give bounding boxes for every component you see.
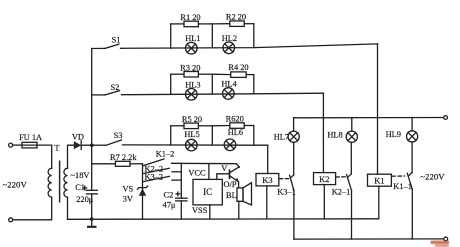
wire speaker to ground rail — [238, 201, 240, 219]
svg-text:R5 20: R5 20 — [182, 115, 202, 124]
wire mid to R6 — [212, 125, 230, 127]
svg-text:HL3: HL3 — [185, 80, 200, 89]
label ~220V (left mains) — [3, 179, 28, 189]
svg-text:C1: C1 — [75, 183, 85, 192]
wire K3-1 to bottom rail — [293, 191, 295, 240]
svg-text:HL5: HL5 — [184, 130, 199, 139]
relay coil K3 — [256, 174, 279, 186]
svg-text:K1–2: K1–2 — [156, 150, 175, 159]
svg-text:K3–2: K3–2 — [144, 173, 163, 182]
wire row 3 — [123, 144, 268, 146]
wire K1-1 to bottom rail — [411, 189, 413, 239]
svg-text:R1 20: R1 20 — [180, 13, 200, 22]
svg-text:IC: IC — [203, 187, 212, 197]
label ~18V — [71, 171, 90, 180]
switch S2 — [92, 83, 120, 95]
svg-text:HL2: HL2 — [222, 34, 237, 43]
relay coil K2 — [314, 173, 336, 185]
wire 220V lamp rail — [294, 117, 444, 119]
node ground junction — [90, 217, 94, 221]
relay contact K2-2 — [143, 164, 181, 173]
wire R2 right branch — [244, 24, 254, 48]
wire row1 to relay K1 coil — [377, 44, 379, 174]
resistor R7 2.2k — [110, 153, 137, 166]
svg-text:K1: K1 — [374, 176, 384, 186]
svg-text:HL1: HL1 — [185, 34, 200, 43]
lamp HL3 — [185, 80, 200, 100]
wire row3 parallel-resistor left branch — [171, 126, 184, 145]
dashed link K1 to contact K1-1 — [392, 175, 405, 177]
transformer T primary winding — [48, 168, 52, 197]
wire O/P output to transistor base — [217, 174, 237, 189]
wire row1 parallel-resistor left branch — [171, 24, 184, 48]
speaker BL — [226, 183, 252, 205]
watermark red text — [431, 241, 450, 247]
svg-text:S3: S3 — [114, 131, 123, 140]
svg-text:VSS: VSS — [192, 206, 208, 215]
svg-text:K3–1: K3–1 — [277, 187, 296, 196]
wire contact/zener vertical — [142, 164, 144, 219]
wire row2 parallel-resistor left branch — [171, 74, 184, 94]
lamp HL7 — [274, 131, 300, 142]
wire HL9 to contact K1-1 — [411, 142, 413, 173]
svg-text:BL: BL — [226, 191, 237, 200]
svg-text:HL6: HL6 — [228, 128, 243, 137]
zener diode VS 3V — [123, 185, 148, 204]
relay coil K1 — [368, 174, 392, 186]
svg-text:R2 20: R2 20 — [226, 13, 246, 22]
svg-text:~18V: ~18V — [71, 171, 90, 180]
transformer T secondary winding — [54, 143, 67, 197]
wire K2 coil to ground rail — [323, 185, 325, 219]
wire secondary top to diode — [68, 145, 74, 168]
wire R4 right branch — [246, 75, 254, 94]
svg-text:220μ: 220μ — [76, 195, 94, 204]
lamp HL6 — [224, 128, 243, 150]
relay contact K3-1 — [277, 175, 296, 196]
lamp HL9 — [386, 130, 418, 142]
svg-text:C2: C2 — [164, 190, 174, 199]
wire K2-1 to bottom rail — [351, 190, 353, 239]
wire VCC pin — [188, 164, 209, 180]
wire HL8 to contact K2-1 — [350, 142, 352, 174]
diode VD — [72, 133, 92, 150]
wire row3 to relay K3 coil — [267, 145, 269, 173]
svg-text:K1–1: K1–1 — [393, 182, 412, 191]
svg-text:HL9: HL9 — [386, 130, 401, 139]
svg-text:K3: K3 — [262, 175, 272, 185]
wire HL8 top — [351, 118, 353, 132]
wire R7 to contact bus — [130, 163, 143, 165]
svg-text:VD: VD — [72, 133, 84, 142]
terminal bottom rail right — [444, 237, 448, 241]
svg-text:K2: K2 — [319, 174, 329, 184]
svg-text:S2: S2 — [110, 83, 119, 92]
label ~220V (right mains) — [420, 171, 445, 181]
svg-text:R7 2.2k: R7 2.2k — [110, 153, 137, 162]
resistor R5 20 — [182, 115, 202, 128]
wire fuse to transformer primary — [37, 145, 52, 168]
relay contact K2-1 — [332, 174, 352, 197]
wire R5 to mid junction row3 — [198, 126, 212, 145]
svg-text:R620: R620 — [226, 115, 244, 124]
resistor R1 20 — [180, 13, 200, 27]
terminal (mains input top-left) — [9, 143, 22, 147]
svg-text:~220V: ~220V — [420, 171, 445, 181]
wire contacts right bus to C2 — [180, 163, 182, 198]
ground symbol — [87, 219, 97, 227]
wire left supply bus (vertical) — [91, 49, 93, 191]
transformer core — [59, 161, 61, 203]
svg-text:O/P: O/P — [224, 180, 237, 189]
wire R3 to mid junction row2 — [198, 74, 212, 94]
resistor R6 20 — [226, 115, 245, 129]
svg-text:~220V: ~220V — [3, 179, 28, 189]
transistor V — [221, 164, 239, 182]
svg-text:K2–1: K2–1 — [332, 187, 351, 196]
wire R7 feed from bus — [92, 163, 116, 165]
resistor R3 20 — [180, 63, 200, 77]
wire HL7 to contact K3-1 — [293, 142, 295, 175]
wire K1 coil to ground rail end — [378, 186, 380, 219]
node rectifier output junction — [90, 143, 94, 147]
wire secondary bottom to ground rail — [67, 197, 69, 219]
switch S3 — [92, 131, 123, 145]
dashed link K3 to contact K3-1 — [279, 178, 289, 180]
svg-text:FU 1A: FU 1A — [19, 133, 42, 142]
svg-text:R3 20: R3 20 — [180, 63, 200, 72]
terminal 220V rail right — [444, 116, 448, 120]
svg-text:T: T — [54, 143, 60, 153]
wire R1 to mid junction — [198, 24, 212, 48]
svg-text:47μ: 47μ — [163, 201, 176, 210]
wire VSS pin — [192, 205, 210, 219]
lamp HL1 — [185, 34, 200, 54]
svg-text:3V: 3V — [123, 194, 133, 203]
capacitor C1 220u — [75, 183, 97, 219]
resistor R4 20 — [228, 63, 248, 77]
fuse FU 1A — [19, 133, 42, 148]
lamp HL5 — [184, 130, 199, 151]
svg-text:HL4: HL4 — [221, 80, 237, 89]
svg-text:HL8: HL8 — [327, 131, 342, 140]
relay contact K1-1 — [393, 173, 412, 192]
switch S1 — [92, 35, 121, 48]
svg-text:R4 20: R4 20 — [228, 63, 248, 72]
svg-text:V: V — [221, 164, 227, 173]
svg-text:S1: S1 — [112, 35, 121, 44]
svg-text:VCC: VCC — [188, 168, 206, 177]
capacitor C2 47u — [163, 190, 188, 219]
wire rail corner to lamp HL7 — [293, 118, 295, 131]
lamp HL8 — [327, 131, 357, 143]
dashed link K2 to contact K2-1 — [336, 176, 346, 178]
resistor R2 20 — [226, 13, 246, 27]
lamp HL4 — [221, 80, 237, 100]
op-amp IC U1 box — [193, 179, 222, 205]
wire emitter to speaker — [238, 182, 240, 188]
wire mid to R4 — [212, 73, 230, 75]
terminal (mains input bottom-left) — [9, 218, 13, 222]
wire mid junction to R2 — [212, 23, 230, 25]
wire bottom 220V rail — [294, 238, 444, 240]
wire HL9 top — [411, 118, 413, 131]
wire K3 coil to ground rail — [266, 186, 268, 219]
wire VCC rail — [172, 163, 240, 167]
wire primary bottom to lower terminal — [13, 197, 52, 220]
wire R6 right branch — [244, 126, 254, 146]
svg-text:HL7: HL7 — [274, 133, 289, 142]
relay contact K1-2 — [143, 150, 174, 166]
svg-text:VS: VS — [123, 185, 134, 194]
wire row 2 — [122, 93, 324, 95]
ground rail — [68, 218, 379, 221]
wire row 1 — [121, 44, 378, 48]
lamp HL2 — [222, 34, 237, 54]
wire row2 to relay K2 coil — [322, 93, 324, 172]
relay contact K3-2 — [143, 173, 181, 182]
